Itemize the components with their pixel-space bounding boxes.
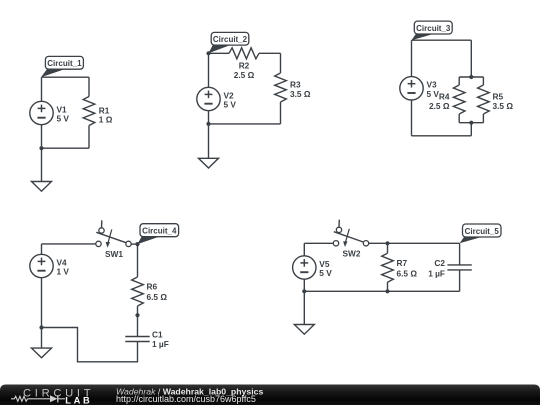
- CircuitLab logo: [11, 388, 94, 405]
- wire bottom rail circuit 5: [304, 290, 459, 292]
- resistor R7 6.5 Ω: [382, 243, 418, 291]
- ground circuit 4: [32, 328, 52, 358]
- resistor R3 3.5 Ω: [275, 73, 311, 102]
- switch SW2: [333, 220, 368, 259]
- svg-text:SW2: SW2: [343, 249, 361, 259]
- wire bottom loop circuit 4: [42, 328, 138, 362]
- wire top rail circuit 1: [42, 77, 90, 96]
- svg-text:R6: R6: [147, 281, 158, 291]
- wire bottom rail circuit 1: [42, 126, 90, 149]
- svg-text:3.5 Ω: 3.5 Ω: [493, 101, 514, 111]
- node Circuit_3 label: [412, 21, 453, 40]
- wire top-left circuit 2: [209, 52, 230, 54]
- node Circuit_1 label: [41, 56, 83, 77]
- wire switch right to C2 node: [369, 242, 460, 244]
- svg-text:5 V: 5 V: [224, 100, 237, 110]
- switch SW1: [96, 220, 131, 259]
- capacitor C2 1 µF: [428, 243, 472, 291]
- wire bottom rail circuit 3: [412, 123, 472, 136]
- svg-text:Circuit_5: Circuit_5: [465, 227, 500, 236]
- junction dot circuit 3 bottom: [469, 121, 473, 125]
- capacitor C1 1 µF: [125, 329, 168, 349]
- footer bar: [0, 385, 540, 405]
- ground circuit 2: [199, 124, 219, 168]
- junction dot circuit 4 ground node: [39, 325, 43, 329]
- wire switch left to V5: [304, 243, 333, 256]
- wire top-right circuit 2: [259, 53, 281, 73]
- svg-text:C1: C1: [152, 329, 163, 339]
- voltage source V5 5 V: [293, 256, 333, 291]
- node Circuit_2 label: [209, 32, 249, 53]
- resistor R4 2.5 Ω: [429, 85, 465, 114]
- junction dot circuit 1: [39, 146, 43, 150]
- voltage source V4 1 V: [30, 254, 70, 327]
- svg-text:5 V: 5 V: [57, 114, 70, 124]
- svg-text:LAB: LAB: [65, 395, 92, 405]
- junction dot R7 top: [385, 241, 389, 245]
- ground circuit 5: [294, 291, 314, 334]
- junction dot circuit 4 node: [135, 242, 139, 246]
- resistor R6 6.5 Ω: [132, 277, 168, 306]
- node Circuit_5 label: [460, 224, 501, 243]
- svg-text:http://circuitlab.com/cusb76w6: http://circuitlab.com/cusb76w6pffc5: [116, 394, 256, 404]
- svg-text:6.5 Ω: 6.5 Ω: [147, 292, 168, 302]
- voltage source V2 5 V: [197, 53, 237, 124]
- svg-text:5 V: 5 V: [427, 89, 440, 99]
- junction dot between R6 and C1: [135, 313, 139, 317]
- resistor R1 1 Ω: [83, 97, 113, 126]
- wire R6 to C1: [137, 306, 139, 337]
- wire parallel top bar circuit 3: [459, 77, 483, 85]
- voltage source V3 5 V: [400, 40, 440, 136]
- wire switch right to R6: [131, 244, 137, 277]
- svg-text:Circuit_1: Circuit_1: [47, 59, 82, 68]
- ground circuit 1: [32, 148, 52, 191]
- svg-text:5 V: 5 V: [319, 268, 332, 278]
- junction dot R7 bottom: [385, 289, 389, 293]
- node Circuit_4 label: [138, 224, 179, 244]
- svg-text:2.5 Ω: 2.5 Ω: [429, 101, 450, 111]
- svg-text:Circuit_2: Circuit_2: [213, 35, 248, 44]
- svg-text:1 µF: 1 µF: [152, 339, 169, 349]
- svg-text:R7: R7: [397, 258, 408, 268]
- svg-text:Circuit_4: Circuit_4: [142, 227, 177, 236]
- junction dot circuit 2 bottom: [206, 122, 210, 126]
- junction dot V5 bottom: [302, 289, 306, 293]
- wire switch left to V4: [42, 244, 96, 254]
- junction dot circuit 3 top: [469, 75, 473, 79]
- wire parallel bottom bar circuit 3: [459, 114, 483, 123]
- footer title text: [116, 386, 263, 404]
- svg-text:1 V: 1 V: [57, 267, 70, 277]
- svg-text:Circuit_3: Circuit_3: [416, 24, 451, 33]
- voltage source V1 5 V: [30, 77, 70, 148]
- resistor R5 3.5 Ω: [478, 85, 514, 114]
- wire top rail circuit 3: [412, 40, 472, 77]
- svg-text:SW1: SW1: [105, 249, 123, 259]
- svg-text:C2: C2: [434, 258, 445, 268]
- wire bottom rail circuit 2: [209, 102, 281, 124]
- svg-text:3.5 Ω: 3.5 Ω: [290, 89, 311, 99]
- svg-text:1 Ω: 1 Ω: [99, 114, 113, 124]
- svg-text:2.5 Ω: 2.5 Ω: [234, 70, 255, 80]
- svg-text:1 µF: 1 µF: [428, 268, 445, 278]
- junction dot circuit 2 top: [206, 51, 210, 55]
- svg-text:6.5 Ω: 6.5 Ω: [397, 268, 418, 278]
- resistor R2 2.5 Ω: [229, 48, 259, 80]
